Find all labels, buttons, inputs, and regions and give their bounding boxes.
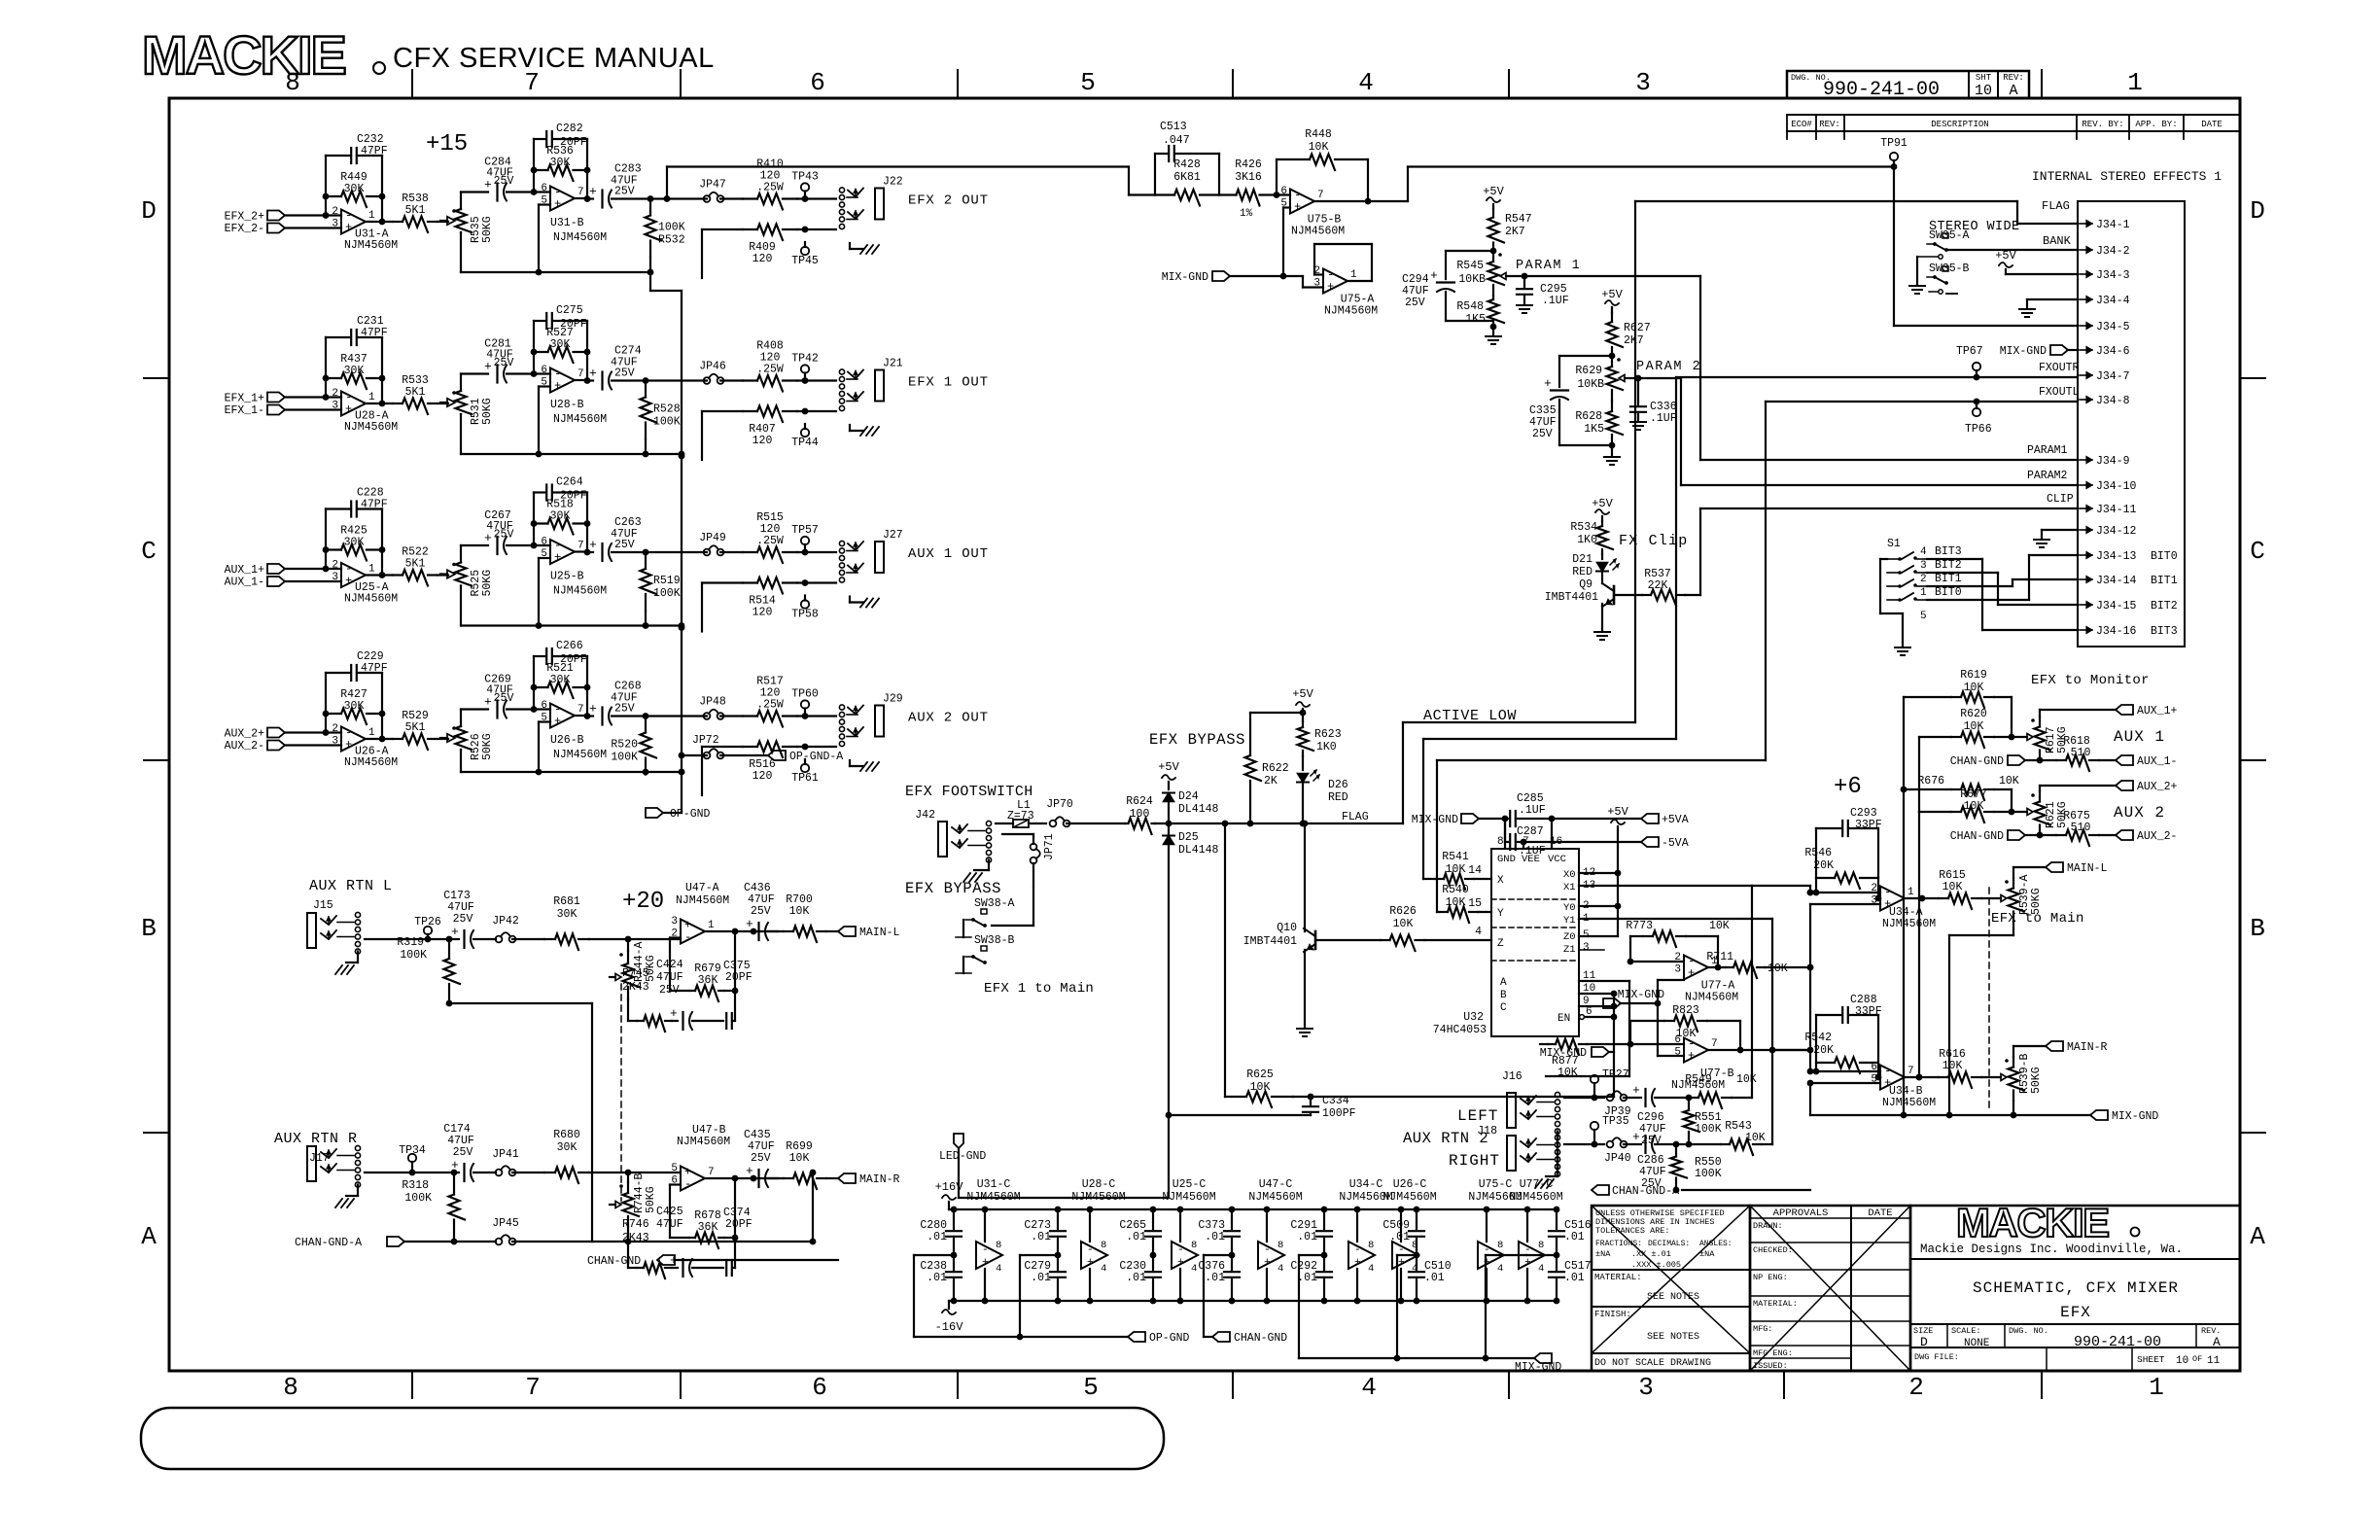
svg-text:5: 5 xyxy=(1080,68,1096,97)
capacitor C229 xyxy=(326,650,388,681)
wire aux2+ xyxy=(2040,781,2178,793)
wire u34a out xyxy=(1905,895,1939,902)
svg-text:SW38-B: SW38-B xyxy=(974,934,1015,947)
resistor R449 xyxy=(326,171,382,207)
wire pot top xyxy=(461,710,488,727)
svg-text:TP43: TP43 xyxy=(791,171,819,184)
svg-text:1: 1 xyxy=(368,564,375,576)
label AUX 2 OUT xyxy=(908,711,989,726)
svg-text:6: 6 xyxy=(1871,1062,1877,1073)
svg-text:15: 15 xyxy=(1468,897,1482,910)
svg-text:R711: R711 xyxy=(1706,951,1733,963)
wire monitor bus xyxy=(1904,697,1919,812)
switch SW38-A xyxy=(965,887,1033,927)
svg-text:3K16: 3K16 xyxy=(1235,171,1262,184)
svg-text:BIT2: BIT2 xyxy=(2151,600,2178,612)
svg-text:D21: D21 xyxy=(1572,553,1592,566)
svg-text:TP35: TP35 xyxy=(1602,1115,1629,1128)
svg-text:510: 510 xyxy=(2071,747,2091,759)
svg-text:R428: R428 xyxy=(1173,158,1201,171)
svg-text:PARAM2: PARAM2 xyxy=(2027,470,2068,482)
wire pot top xyxy=(461,192,488,210)
svg-text:10K: 10K xyxy=(789,905,810,918)
svg-text:1K0: 1K0 xyxy=(1316,741,1337,753)
svg-text:+: + xyxy=(484,360,492,374)
jumper JP39 xyxy=(1604,1091,1641,1118)
capacitor C509/C510 xyxy=(1382,1207,1451,1305)
svg-text:+: + xyxy=(345,402,352,416)
jack J18 xyxy=(1477,1125,1559,1176)
svg-text:SEE NOTES: SEE NOTES xyxy=(1647,1332,1699,1343)
LED D21 xyxy=(1572,553,1619,578)
svg-text:EFX 1 OUT: EFX 1 OUT xyxy=(908,375,989,391)
svg-text:510: 510 xyxy=(2071,822,2091,834)
svg-text:SHT: SHT xyxy=(1976,73,1992,83)
svg-text:7: 7 xyxy=(577,704,584,716)
resistor R677 xyxy=(1919,788,2027,822)
svg-text:-5VA: -5VA xyxy=(1662,837,1689,850)
svg-text:4: 4 xyxy=(1358,68,1374,97)
svg-text:+: + xyxy=(1177,1257,1184,1269)
capacitor C335 xyxy=(1529,356,1612,445)
capacitor C263 xyxy=(575,516,646,561)
wire fb u47a xyxy=(670,928,778,1021)
svg-text:EFX to Main: EFX to Main xyxy=(1991,911,2084,927)
svg-text:ANGLES:: ANGLES: xyxy=(1699,1240,1732,1248)
capacitor C425 xyxy=(656,1206,723,1277)
svg-text:10KB: 10KB xyxy=(1577,378,1604,391)
svg-text:APPROVALS: APPROVALS xyxy=(1773,1207,1829,1219)
svg-text:.047: .047 xyxy=(1163,134,1190,147)
wire r547 xyxy=(0,0,1,1)
footer box xyxy=(141,1408,1164,1469)
svg-text:B: B xyxy=(2250,914,2265,943)
wire FXOUTR drop xyxy=(1423,377,1676,879)
svg-text:+: + xyxy=(1398,1257,1405,1269)
svg-text:+: + xyxy=(670,1006,678,1021)
resistor R676 xyxy=(1901,775,2019,812)
switch SW35-B xyxy=(1927,262,1970,294)
svg-text:1: 1 xyxy=(2149,1373,2164,1402)
svg-text:+: + xyxy=(1354,1257,1361,1269)
svg-text:+: + xyxy=(1632,1083,1640,1098)
svg-text:+: + xyxy=(451,1158,459,1172)
svg-text:1: 1 xyxy=(1350,269,1357,281)
svg-text:MIX-GND: MIX-GND xyxy=(1162,271,1208,284)
wire opgnd bus xyxy=(914,1255,1128,1340)
svg-text:U32: U32 xyxy=(1463,1011,1484,1024)
svg-text:10K: 10K xyxy=(1309,141,1329,154)
svg-text:R520: R520 xyxy=(611,739,638,752)
port MAIN-L xyxy=(2013,862,2108,878)
wire led-gnd xyxy=(959,1115,1169,1198)
svg-text:JP40: JP40 xyxy=(1604,1152,1631,1165)
power +5V param1 xyxy=(1483,185,1504,202)
svg-text:C275: C275 xyxy=(556,304,583,317)
ground J17 xyxy=(335,1185,358,1208)
svg-text:6: 6 xyxy=(1280,186,1287,197)
svg-text:Z=73: Z=73 xyxy=(1007,810,1034,822)
op-amp U34-C xyxy=(1339,1178,1392,1304)
wire feedback B xyxy=(531,656,591,719)
title block DWG NO box xyxy=(1787,71,2029,101)
op-amp U26-C xyxy=(1382,1178,1436,1304)
svg-text:Y0: Y0 xyxy=(1563,902,1576,914)
svg-text:MFG:: MFG: xyxy=(1753,1324,1772,1334)
svg-text:EFX BYPASS: EFX BYPASS xyxy=(905,880,1001,897)
ground param1 xyxy=(1486,327,1501,344)
resistor R318 xyxy=(402,1172,465,1244)
svg-text:R623: R623 xyxy=(1314,728,1342,741)
svg-text:NJM4560M: NJM4560M xyxy=(553,413,607,426)
svg-text:NJM4560M: NJM4560M xyxy=(1071,1191,1125,1204)
svg-text:2: 2 xyxy=(1908,1373,1924,1402)
ECO revision table xyxy=(1787,115,2240,139)
svg-text:X1: X1 xyxy=(1563,882,1576,893)
svg-text:25V: 25V xyxy=(614,703,635,716)
svg-text:J22: J22 xyxy=(883,176,903,189)
svg-text:2: 2 xyxy=(332,723,338,735)
svg-text:AUX_2-: AUX_2- xyxy=(2137,830,2177,843)
wire r319 gnd xyxy=(449,1003,592,1242)
svg-text:NJM4560M: NJM4560M xyxy=(553,585,607,598)
wire changnd bus xyxy=(1204,1255,1232,1337)
jumper JP42 xyxy=(492,915,544,942)
wire FXOUTL xyxy=(1766,399,2078,405)
svg-text:A: A xyxy=(141,1222,157,1251)
ground j16 xyxy=(1535,1132,1557,1189)
svg-text:4: 4 xyxy=(1361,1373,1377,1402)
svg-text:TP42: TP42 xyxy=(791,353,819,366)
svg-text:+20: +20 xyxy=(622,889,664,915)
svg-text:10K: 10K xyxy=(1964,800,1984,813)
wire d26 down xyxy=(1300,783,1307,826)
svg-text:25V: 25V xyxy=(494,175,514,188)
svg-text:100K: 100K xyxy=(1695,1168,1722,1180)
port EFX_2- xyxy=(225,223,341,235)
ground j42 xyxy=(963,860,989,883)
port CHAN-GND bot xyxy=(1212,1332,1287,1345)
wire CLIP route xyxy=(1685,508,2078,595)
wire TP91 drop xyxy=(1894,167,2078,327)
svg-text:8: 8 xyxy=(1368,1240,1374,1251)
resistor R675 xyxy=(2056,810,2177,846)
svg-text:+5V: +5V xyxy=(1592,497,1613,510)
label BIT0-3 in xyxy=(2151,550,2178,638)
svg-text:NJM4560M: NJM4560M xyxy=(344,421,398,434)
resistor R521 xyxy=(534,662,587,698)
wire pot bottom xyxy=(460,750,462,772)
svg-text:D: D xyxy=(141,196,157,226)
svg-text:.01: .01 xyxy=(1126,1272,1146,1284)
wire pin5 xyxy=(536,387,550,458)
capacitor C274 xyxy=(575,345,646,390)
resistor R518 xyxy=(534,499,587,535)
jack J27 xyxy=(839,529,902,582)
capacitor C173 xyxy=(443,890,496,948)
svg-text:JP49: JP49 xyxy=(699,532,726,544)
svg-text:10K: 10K xyxy=(1393,918,1414,930)
ground j34-12 xyxy=(2034,530,2078,547)
svg-text:RIGHT: RIGHT xyxy=(1449,1152,1500,1170)
svg-text:-: - xyxy=(982,1244,989,1256)
svg-text:-: - xyxy=(684,930,691,944)
wire u34b out xyxy=(1905,1074,1939,1081)
capacitor C295 xyxy=(1517,276,1569,313)
svg-text:ISSUED:: ISSUED: xyxy=(1753,1361,1788,1371)
wire pin5 xyxy=(536,722,550,776)
svg-text:R622: R622 xyxy=(1262,762,1289,775)
wire feedback A xyxy=(323,673,386,742)
svg-text:TP58: TP58 xyxy=(791,609,819,621)
svg-text:R541: R541 xyxy=(1442,851,1469,863)
wire r539b bot xyxy=(2011,1101,2017,1118)
svg-text:JP48: JP48 xyxy=(699,696,726,709)
svg-text:100K: 100K xyxy=(653,587,681,600)
wire j16 row xyxy=(1564,1097,1604,1099)
svg-text:C: C xyxy=(2250,537,2265,566)
svg-text:Z1: Z1 xyxy=(1563,944,1576,956)
label AUX RTN 2 xyxy=(1403,1130,1488,1147)
wire j18 row xyxy=(1564,1143,1604,1145)
svg-text:47PF: 47PF xyxy=(361,499,388,511)
svg-text:INTERNAL STEREO EFFECTS 1: INTERNAL STEREO EFFECTS 1 xyxy=(2032,169,2222,184)
label EFX 1 to Main xyxy=(984,981,1094,997)
wire bus xyxy=(461,451,684,458)
svg-text:TP34: TP34 xyxy=(399,1144,426,1157)
capacitor C275 xyxy=(534,304,587,331)
svg-text:GND: GND xyxy=(1497,854,1516,865)
svg-text:J34-11: J34-11 xyxy=(2096,504,2137,516)
capacitor C273/C279 xyxy=(1024,1207,1066,1305)
svg-text:Z: Z xyxy=(1497,938,1504,950)
wire pin5 xyxy=(536,558,550,629)
svg-text:EFX BYPASS: EFX BYPASS xyxy=(1149,731,1245,749)
wire pot top xyxy=(461,374,488,392)
ground param2 xyxy=(1604,445,1620,465)
svg-text:BIT0: BIT0 xyxy=(1935,586,1962,599)
resistor R746 xyxy=(622,1218,672,1278)
svg-text:2: 2 xyxy=(1871,883,1877,894)
svg-text:J34-2: J34-2 xyxy=(2096,245,2130,258)
svg-text:NJM4560M: NJM4560M xyxy=(1882,918,1936,930)
label EFX to Main xyxy=(1991,911,2084,927)
svg-text:3: 3 xyxy=(332,572,338,583)
svg-text:NJM4560M: NJM4560M xyxy=(1162,1191,1215,1204)
capacitor C291/C292 xyxy=(1290,1207,1332,1305)
wire aux1+ xyxy=(2040,705,2178,717)
resistor R619 xyxy=(1904,669,2012,737)
switch SW38-B xyxy=(956,934,1015,973)
port MAIN-R out xyxy=(838,1173,900,1186)
svg-text:OP-GND: OP-GND xyxy=(670,808,711,821)
svg-text:J18: J18 xyxy=(1477,1125,1497,1137)
svg-text:C513: C513 xyxy=(1160,121,1187,133)
svg-text:4: 4 xyxy=(1277,1263,1283,1275)
svg-text:-: - xyxy=(1087,1244,1094,1256)
svg-text:R532: R532 xyxy=(658,234,685,247)
svg-text:2K7: 2K7 xyxy=(1624,334,1644,347)
svg-text:+: + xyxy=(589,367,597,381)
resistor R627 xyxy=(1607,307,1651,359)
svg-text:10K: 10K xyxy=(1736,1073,1757,1086)
test point TP44 xyxy=(791,424,819,449)
svg-text:C287: C287 xyxy=(1517,825,1544,838)
resistor R546 xyxy=(1804,847,1878,889)
svg-text:30K: 30K xyxy=(550,674,571,686)
svg-text:+: + xyxy=(1327,280,1334,294)
svg-text:U25-C: U25-C xyxy=(1172,1178,1207,1191)
svg-text:EFX to Monitor: EFX to Monitor xyxy=(2031,673,2150,688)
svg-text:CHAN-GND: CHAN-GND xyxy=(1950,830,2004,843)
svg-text:JP72: JP72 xyxy=(692,734,719,747)
LED D26 xyxy=(1297,756,1348,804)
resistor R616 xyxy=(1939,1048,2001,1088)
svg-text:36K: 36K xyxy=(698,974,718,987)
svg-text:C264: C264 xyxy=(556,476,583,489)
potentiometer R617 xyxy=(2027,717,2069,760)
svg-text:AUX 2 OUT: AUX 2 OUT xyxy=(908,711,989,726)
svg-text:TP67: TP67 xyxy=(1956,345,1983,358)
resistor R448 xyxy=(1277,128,1368,201)
svg-text:7: 7 xyxy=(1711,1038,1718,1050)
svg-text:4: 4 xyxy=(1497,1263,1503,1275)
svg-text:5: 5 xyxy=(1920,611,1927,622)
svg-text:TP60: TP60 xyxy=(791,688,819,701)
port MIX-GND j34-6 xyxy=(2000,345,2078,358)
svg-text:X: X xyxy=(1497,875,1504,887)
svg-text:LEFT: LEFT xyxy=(1457,1107,1498,1125)
op-amp U47-B xyxy=(671,1124,730,1191)
capacitor C174 xyxy=(443,1123,496,1181)
capacitor C373/C376 xyxy=(1198,1207,1240,1305)
svg-text:100K: 100K xyxy=(1695,1123,1722,1136)
svg-text:NP ENG:: NP ENG: xyxy=(1753,1273,1788,1282)
svg-text:.01: .01 xyxy=(1031,1231,1051,1243)
svg-text:-: - xyxy=(1177,1244,1184,1256)
svg-text:R680: R680 xyxy=(553,1129,580,1141)
ground jack xyxy=(850,425,879,436)
resistor R516 xyxy=(702,742,836,796)
svg-text:4: 4 xyxy=(1475,926,1482,938)
svg-text:AUX RTN 2: AUX RTN 2 xyxy=(1403,1130,1488,1147)
svg-text:AUX_1+: AUX_1+ xyxy=(2137,705,2178,717)
svg-text:30K: 30K xyxy=(550,338,571,351)
label RIGHT xyxy=(1449,1152,1500,1170)
port MAIN-R xyxy=(2013,1041,2108,1057)
jumper JP47 xyxy=(650,179,743,202)
capacitor C232 xyxy=(326,133,388,163)
op-amp U28-B xyxy=(534,365,607,426)
wire q10 collector xyxy=(1302,821,1309,931)
capacitor C265/C230 xyxy=(1119,1207,1161,1305)
label EFX BYPASS big xyxy=(1149,731,1245,749)
svg-text:36K: 36K xyxy=(698,1221,718,1234)
svg-text:EFX 2 OUT: EFX 2 OUT xyxy=(908,193,989,209)
svg-text:22K: 22K xyxy=(1648,579,1668,592)
svg-text:10K: 10K xyxy=(1446,896,1466,909)
svg-text:MIX-GND: MIX-GND xyxy=(2000,345,2047,358)
label +20 xyxy=(622,889,664,915)
port CHAN-GND-A 2 xyxy=(1592,1185,1810,1198)
svg-text:R773: R773 xyxy=(1626,920,1653,932)
svg-text:J34-9: J34-9 xyxy=(2096,455,2130,468)
test point TP58 xyxy=(791,596,819,621)
svg-text:R746: R746 xyxy=(622,1218,649,1231)
port AUX_2- xyxy=(225,740,341,752)
label ACTIVE LOW xyxy=(1423,708,1517,724)
capacitor C293 xyxy=(1816,807,1882,836)
resistor R548 xyxy=(1456,296,1504,330)
resistor R527 xyxy=(534,327,587,363)
svg-text:10: 10 xyxy=(1975,83,1992,99)
ground q10 xyxy=(1297,950,1312,1036)
port CHAN-GND-A aux xyxy=(295,1237,454,1249)
resistor R877 xyxy=(1540,1039,1630,1080)
IC U32 74HC4053 box xyxy=(1433,836,1579,1036)
power -16V rail xyxy=(935,1301,964,1334)
svg-text:D25: D25 xyxy=(1178,831,1199,844)
svg-text:J34-13: J34-13 xyxy=(2096,550,2137,563)
svg-text:U77-C: U77-C xyxy=(1520,1178,1554,1191)
svg-text:AUX 2: AUX 2 xyxy=(2114,804,2165,822)
svg-text:1: 1 xyxy=(708,920,715,931)
svg-text:IMBT4401: IMBT4401 xyxy=(1545,591,1598,604)
svg-text:REV:: REV: xyxy=(1819,120,1840,129)
svg-text:C334: C334 xyxy=(1322,1095,1349,1107)
svg-text:+: + xyxy=(554,379,561,393)
svg-text:1: 1 xyxy=(368,392,375,403)
jumper JP45 xyxy=(454,1170,816,1245)
wire fb u47b xyxy=(670,1175,778,1268)
jack J21 xyxy=(839,358,902,411)
svg-text:7: 7 xyxy=(1317,190,1324,201)
svg-text:SCALE:: SCALE: xyxy=(1951,1326,1981,1336)
svg-text:25V: 25V xyxy=(751,1152,771,1165)
port MIX-GND u75 xyxy=(1162,271,1323,288)
svg-text:EFX_1-: EFX_1- xyxy=(225,404,264,417)
svg-text:+6: +6 xyxy=(1834,774,1862,800)
wire feed1 xyxy=(1901,789,1907,1118)
label +15 xyxy=(426,131,468,157)
svg-text:DO NOT SCALE DRAWING: DO NOT SCALE DRAWING xyxy=(1594,1358,1711,1369)
label AUX 1 xyxy=(2114,728,2165,746)
port MIX-GND u32 xyxy=(1540,1047,1614,1060)
svg-text:-: - xyxy=(1354,1244,1361,1256)
potentiometer R525 xyxy=(440,563,494,597)
svg-text:Z0: Z0 xyxy=(1563,931,1576,943)
svg-text:JP45: JP45 xyxy=(492,1217,519,1230)
svg-text:+15: +15 xyxy=(426,131,468,157)
wire s1 common xyxy=(1880,559,1910,655)
svg-text:8: 8 xyxy=(1538,1240,1544,1251)
resistor R550 xyxy=(1671,1144,1722,1193)
svg-text:FLAG: FLAG xyxy=(2042,199,2070,213)
resistor R615 xyxy=(1939,869,2001,909)
op-amp U28-A xyxy=(332,388,398,434)
svg-text:+: + xyxy=(554,715,561,728)
op-amp U47-A xyxy=(671,882,729,944)
svg-text:J34-16: J34-16 xyxy=(2096,625,2137,638)
potentiometer R531 xyxy=(440,391,494,425)
resistor R519 xyxy=(641,549,681,626)
svg-text:25V: 25V xyxy=(1532,428,1553,440)
svg-text:+: + xyxy=(484,178,492,192)
capacitor C424 xyxy=(656,959,723,1030)
svg-text:SEE NOTES: SEE NOTES xyxy=(1647,1292,1699,1303)
wire Y1 xyxy=(1579,918,1772,920)
svg-text:R318: R318 xyxy=(402,1179,429,1192)
